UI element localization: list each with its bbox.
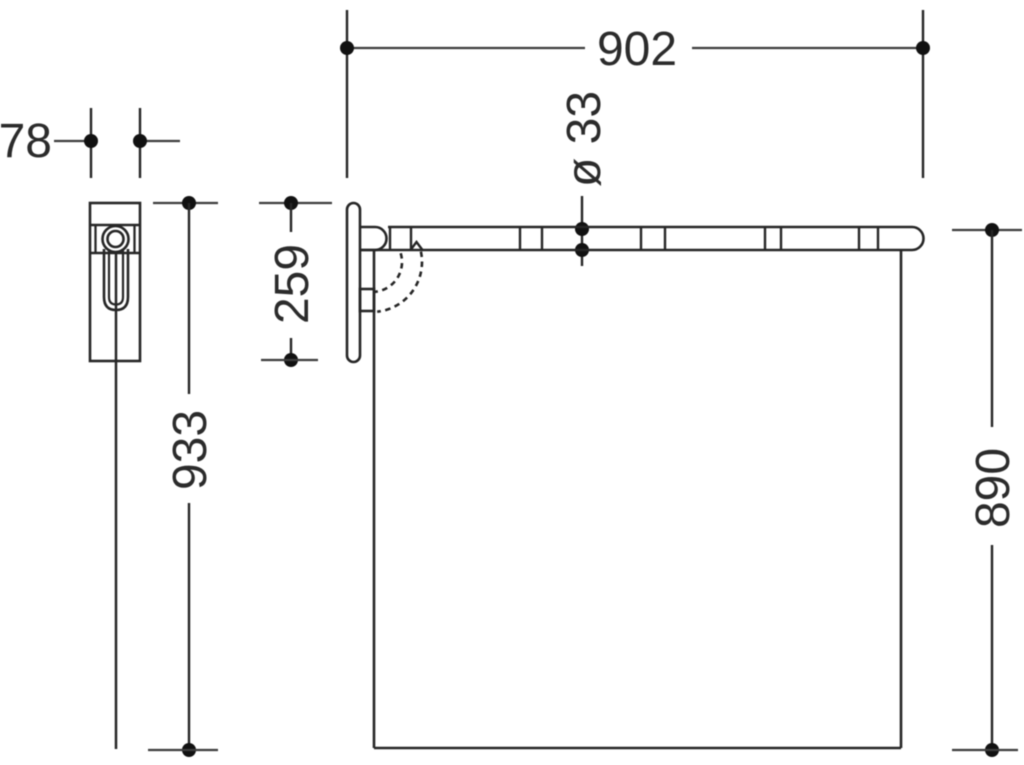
- side view clevis inner: [109, 250, 123, 305]
- svg-text:78: 78: [0, 115, 52, 168]
- bar joint 2: [410, 227, 412, 250]
- dimension diameter 33 bottom dot: [575, 243, 589, 257]
- side view upper band line: [90, 224, 140, 227]
- svg-text:259: 259: [266, 244, 319, 324]
- dimension 933 line lower segment: [188, 503, 190, 750]
- dimension 259 top dot: [284, 196, 298, 210]
- bar bottom outline: [360, 249, 912, 252]
- dimension diameter 33 line: [581, 196, 583, 266]
- bar joint 9: [858, 227, 860, 250]
- bar end cap: [912, 227, 924, 250]
- dimension 890 top extension line: [952, 229, 1022, 231]
- side view band right block line: [133, 225, 135, 253]
- dimension 933 top dot: [182, 196, 196, 210]
- side view band left block line: [94, 225, 96, 253]
- dimension 890 top dot: [985, 223, 999, 237]
- dimension diameter 33 top dot: [575, 222, 589, 236]
- dimension 933 bottom dot: [182, 743, 196, 757]
- svg-text:933: 933: [164, 410, 217, 490]
- curtain right edge: [900, 250, 903, 748]
- dimension 890 bottom extension line: [952, 749, 1018, 751]
- front view wall plate: [347, 203, 360, 362]
- dimension 890 line lower segment: [991, 545, 993, 750]
- dimension 890 line upper segment: [991, 230, 993, 427]
- bar joint 6: [664, 227, 666, 250]
- dimension 902 right dot: [916, 41, 930, 55]
- side view housing rectangle: [90, 203, 140, 361]
- dimension 259 bottom extension line: [261, 359, 318, 361]
- bar joint 10: [877, 227, 879, 250]
- side view lower band line: [90, 252, 140, 255]
- dimension 902 right extension line: [922, 10, 924, 178]
- side view pivot inner circle: [108, 231, 124, 247]
- dimension 78 line left segment: [54, 140, 97, 142]
- dimension 78 extension line left: [90, 108, 92, 178]
- fold arc inner dashed: [374, 253, 402, 292]
- dimension 78 extension line right: [139, 108, 141, 178]
- dimension 78 line right segment: [134, 140, 180, 142]
- dimension 259 line lower segment: [290, 338, 292, 360]
- bar joint 4: [541, 227, 543, 250]
- svg-text:902: 902: [597, 23, 677, 76]
- dimension 933 top extension line: [153, 202, 218, 204]
- dimension 259 line upper segment: [290, 203, 292, 232]
- side view pivot outer circle: [103, 226, 129, 252]
- dimension 259 top extension line: [259, 202, 332, 204]
- dimension 902 left extension line: [346, 10, 348, 178]
- dimension 933 bottom extension line: [148, 749, 218, 751]
- svg-text:ø 33: ø 33: [558, 91, 611, 187]
- dimension 259 bottom dot: [284, 353, 298, 367]
- hinge catch peak: [411, 242, 423, 250]
- curtain left edge: [373, 250, 376, 748]
- bar joint 3: [519, 227, 521, 250]
- dimension 78 dot left: [84, 134, 98, 148]
- svg-text:890: 890: [967, 448, 1020, 528]
- bar top outline: [388, 226, 912, 229]
- front view hinge boss: [360, 227, 387, 250]
- lower wall bracket: [360, 289, 374, 311]
- dimension 933 line upper segment: [188, 203, 190, 394]
- dimension 902 line left segment: [347, 47, 585, 49]
- dimension 902 left dot: [340, 41, 354, 55]
- bar joint 8: [780, 227, 782, 250]
- dimension 902 line right segment: [692, 47, 923, 49]
- fold arc outer dashed: [377, 252, 422, 312]
- dimension 890 bottom dot: [985, 743, 999, 757]
- side view hanging rod line: [115, 252, 118, 749]
- side view clevis outer: [104, 249, 128, 310]
- bar joint 7: [764, 227, 766, 250]
- bar joint at hinge: [389, 227, 391, 250]
- dimension 78 dot right: [133, 134, 147, 148]
- bar joint 5: [640, 227, 642, 250]
- curtain bottom edge: [374, 747, 901, 750]
